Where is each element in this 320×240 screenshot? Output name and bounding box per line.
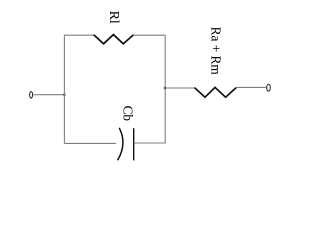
svg-text:Ra + Rm: Ra + Rm	[208, 27, 223, 76]
resistor Ra+Rm (zigzag body)	[195, 87, 237, 97]
wire (bottom-left segment)	[64, 142, 116, 144]
wire (lead from resistor to right terminal)	[236, 86, 266, 88]
wire (right vertical branch)	[164, 35, 166, 143]
node (left junction)	[63, 94, 65, 96]
wire (lead from right node to resistor Ra+Rm)	[165, 87, 195, 89]
resistor Rl (zigzag body)	[94, 35, 134, 44]
wire (bottom-right segment)	[134, 142, 166, 144]
terminal (right output)	[267, 84, 271, 91]
svg-text:Rl: Rl	[106, 11, 121, 24]
wire (top-right segment)	[134, 34, 166, 36]
wire (left lead from terminal to left node)	[33, 94, 64, 96]
terminal (left input)	[30, 92, 33, 99]
capacitor Cb (straight plate)	[133, 128, 135, 160]
wire (top-left segment)	[64, 34, 94, 36]
capacitor Cb (curved plate)	[118, 128, 123, 161]
wire (left vertical branch)	[63, 35, 65, 143]
svg-text:Cb: Cb	[120, 106, 135, 122]
node (right junction)	[164, 87, 166, 89]
